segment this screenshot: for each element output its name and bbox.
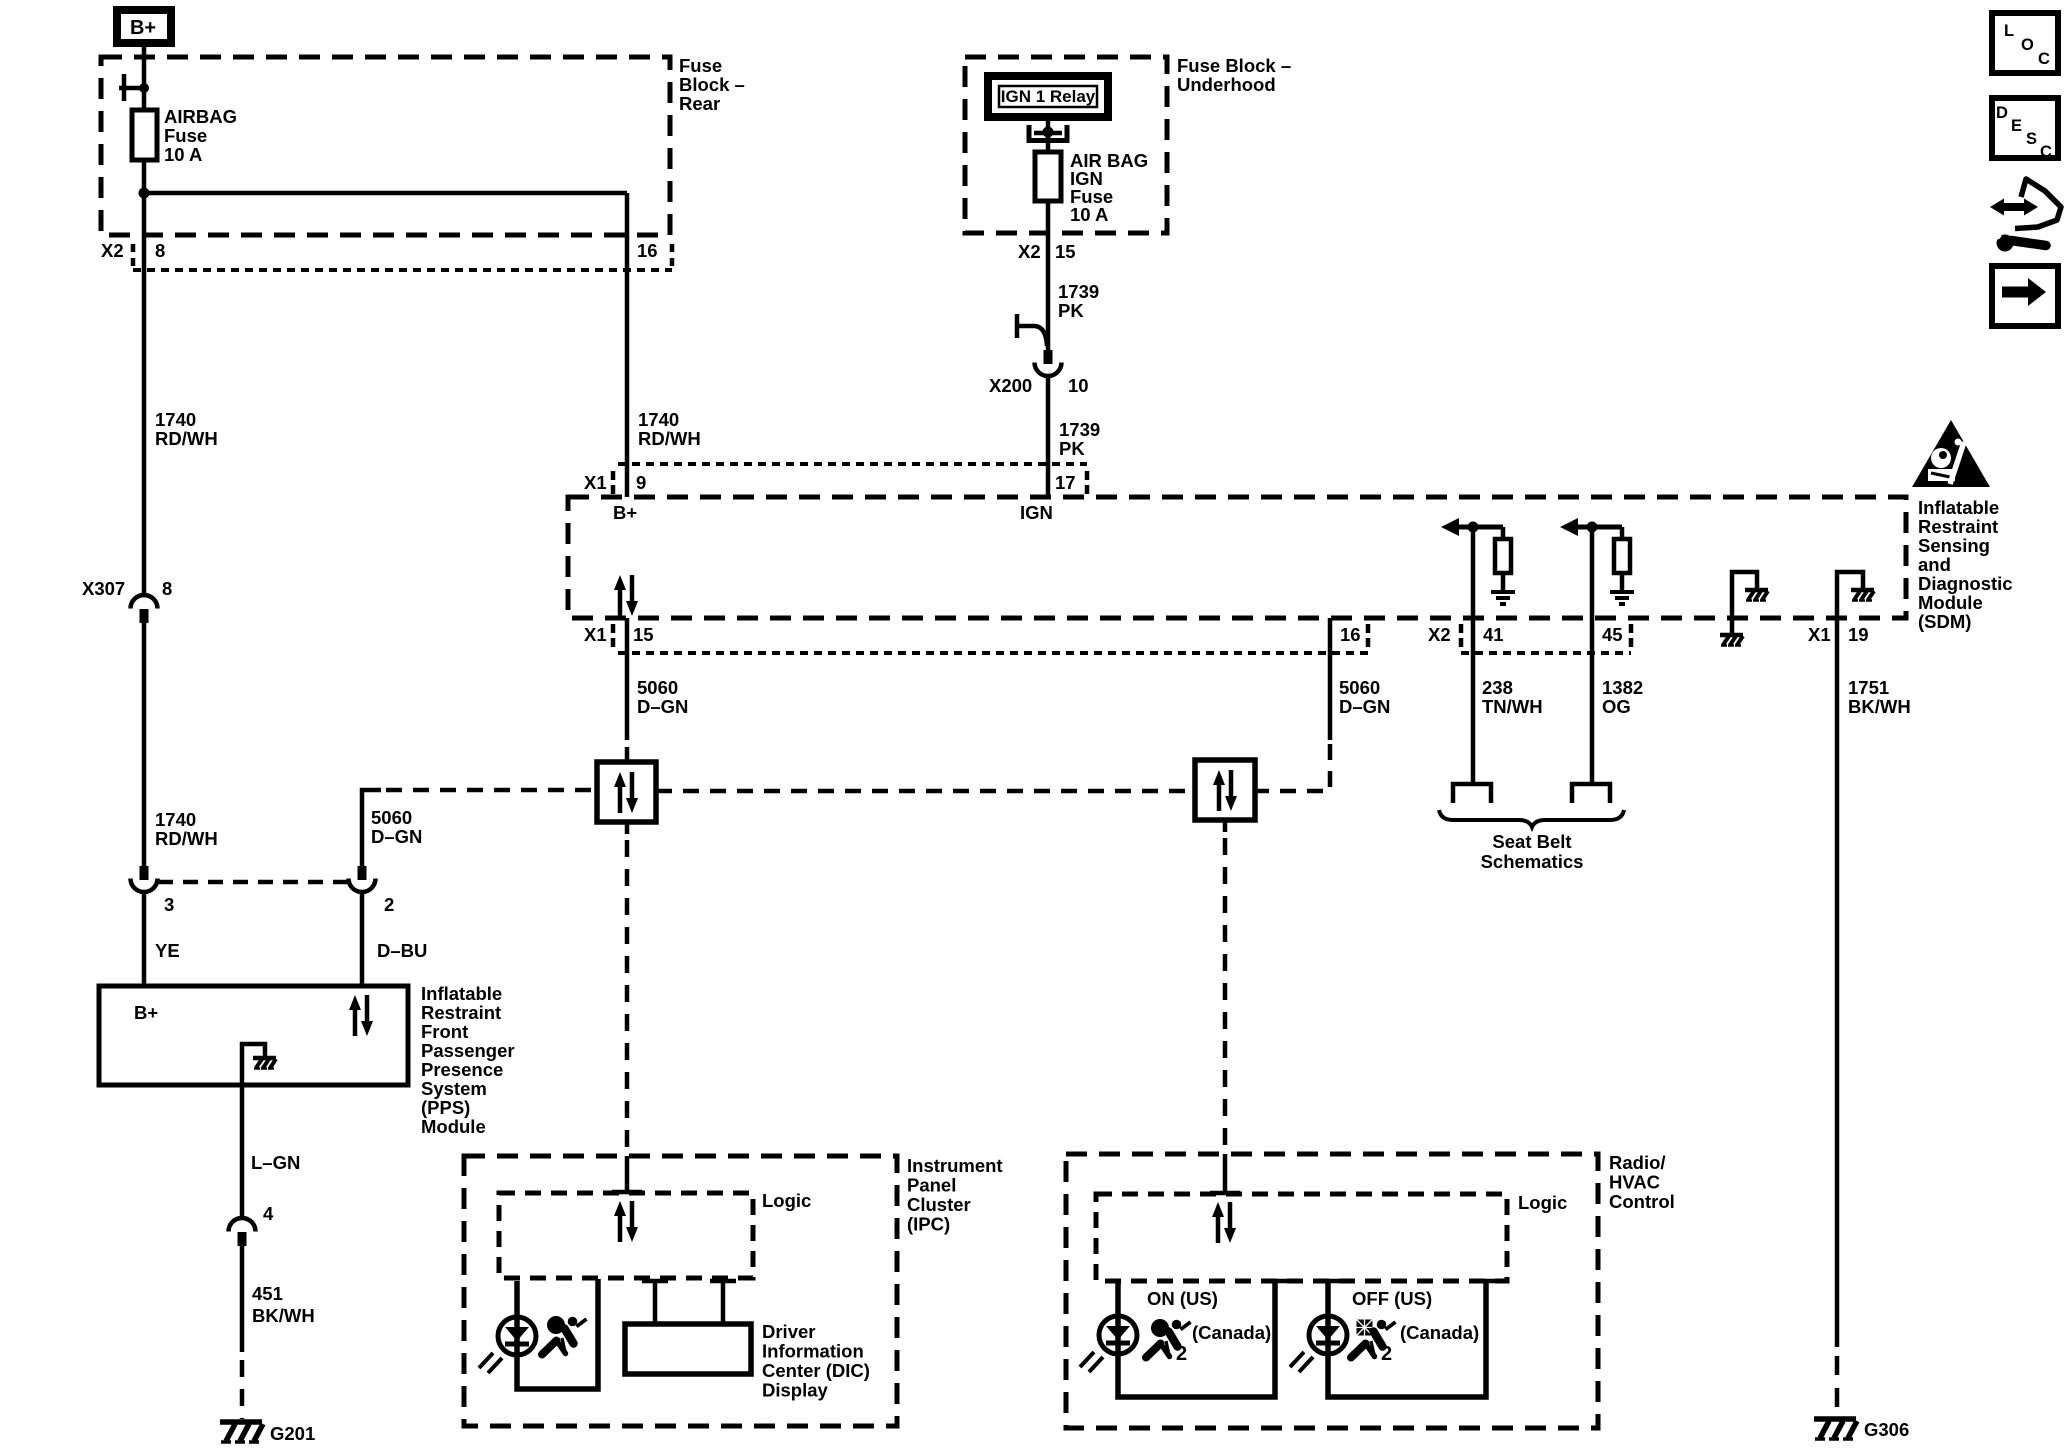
wire pin 45 1382 OG bbox=[1590, 527, 1595, 784]
off-page connector seat belt 2 bbox=[1572, 784, 1610, 803]
arrow to seat belt circuit 1 bbox=[1441, 518, 1503, 536]
svg-text:D: D bbox=[1996, 104, 2008, 122]
svg-text:X1: X1 bbox=[584, 624, 607, 645]
ground G306 bbox=[1814, 1419, 1909, 1440]
svg-text:B+: B+ bbox=[134, 1002, 158, 1023]
OFF box top tick left bbox=[1315, 1279, 1341, 1284]
chassis ground internal floating bbox=[1745, 590, 1768, 601]
wire 5060 dashed run to status box bbox=[386, 788, 597, 793]
svg-text:C: C bbox=[2040, 143, 2052, 161]
wire PPS ground lead L-GN bbox=[240, 1086, 245, 1218]
wire pin 41 238 TN/WH bbox=[1471, 527, 1476, 784]
PPS serial data arrows bbox=[349, 995, 373, 1036]
wire pin 16 5060 D-GN right bbox=[1328, 618, 1333, 740]
svg-text:B+: B+ bbox=[613, 502, 637, 523]
wire 1751 BK/WH bbox=[1835, 618, 1840, 1347]
svg-text:IGN 1 Relay: IGN 1 Relay bbox=[1001, 87, 1096, 106]
power symbol B+ box bbox=[117, 10, 171, 43]
wire relay to fuse bbox=[1046, 120, 1051, 152]
connector X1 separator after pin 16 bbox=[1366, 624, 1371, 647]
wire pin 15 dash to status box bbox=[625, 747, 630, 760]
svg-text:IGN: IGN bbox=[1020, 502, 1053, 523]
connector X1 dotted line bottom bbox=[618, 651, 1368, 655]
SDM internal ground bracket floating bbox=[1732, 572, 1757, 634]
DIC display leg right bbox=[710, 1281, 736, 1324]
svg-text:45: 45 bbox=[1602, 624, 1623, 645]
svg-text:X1: X1 bbox=[1808, 624, 1831, 645]
svg-text:15: 15 bbox=[1055, 241, 1076, 262]
svg-text:O: O bbox=[2021, 36, 2034, 54]
svg-text:X307: X307 bbox=[82, 578, 125, 599]
fuse block rear dashed box bbox=[101, 57, 670, 235]
PPS internal ground wire bbox=[242, 1044, 265, 1086]
wire 1739 PK to SDM bbox=[1046, 378, 1051, 497]
wire fuse to X200 bbox=[1046, 201, 1051, 350]
module IPC dashed box bbox=[464, 1156, 897, 1426]
connector X1 separator right bbox=[1085, 471, 1090, 494]
svg-text:17: 17 bbox=[1055, 472, 1076, 493]
icon LOC box bbox=[1992, 13, 2058, 73]
resistor R1 bbox=[1495, 527, 1511, 591]
svg-text:Logic: Logic bbox=[762, 1190, 811, 1211]
junction pin 41 bbox=[1468, 522, 1479, 533]
svg-text:19: 19 bbox=[1848, 624, 1869, 645]
fuse block underhood dashed box bbox=[965, 57, 1167, 233]
svg-text:E: E bbox=[2011, 117, 2022, 135]
svg-text:X200: X200 bbox=[989, 375, 1032, 396]
wire fuse to X2 pin 8 bbox=[142, 160, 147, 594]
svg-text:41: 41 bbox=[1483, 624, 1504, 645]
svg-text:D–BU: D–BU bbox=[377, 940, 427, 961]
svg-text:10: 10 bbox=[1068, 375, 1089, 396]
module U2 PPS box bbox=[99, 986, 408, 1085]
wire dashed status box to IPC bbox=[625, 840, 630, 1155]
connector X2 dotted line bbox=[1461, 651, 1631, 655]
svg-text:S: S bbox=[2026, 130, 2037, 148]
svg-text:C: C bbox=[2038, 50, 2050, 68]
svg-text:YE: YE bbox=[155, 940, 180, 961]
icon data exchange with wrench bbox=[1990, 179, 2061, 252]
ON indicator LED bbox=[1080, 1316, 1137, 1372]
wire into radio logic bbox=[1223, 1154, 1228, 1193]
relay K1 IGN 1 Relay box bbox=[988, 76, 1108, 117]
radio logic dashed box bbox=[1096, 1194, 1507, 1281]
wire terminal tick radio bbox=[1210, 1191, 1240, 1196]
in-line connector pin 3 bbox=[131, 866, 158, 892]
connector X2 separator right bbox=[670, 244, 675, 266]
svg-text:X2: X2 bbox=[1428, 624, 1451, 645]
radio logic serial arrows bbox=[1212, 1202, 1236, 1243]
svg-text:Fuse Block –Underhood: Fuse Block –Underhood bbox=[1177, 55, 1291, 95]
module SDM dashed box bbox=[568, 497, 1906, 618]
fuse F2 AIR BAG IGN 10A bbox=[1035, 152, 1061, 201]
wire stub under status box right bbox=[1223, 820, 1228, 832]
relay terminal junction bbox=[1043, 127, 1054, 138]
X200 lead hook bbox=[1017, 314, 1047, 346]
svg-text:X2: X2 bbox=[1018, 241, 1041, 262]
warning triangle icon bbox=[1912, 420, 1990, 487]
relay terminal bracket bbox=[1029, 125, 1067, 141]
svg-text:2: 2 bbox=[1381, 1343, 1392, 1365]
chassis ground below SDM edge bbox=[1720, 635, 1743, 646]
connector X1 separator left bbox=[611, 471, 616, 494]
junction at fuse output bbox=[139, 188, 150, 199]
OFF airbag icon bbox=[1351, 1320, 1396, 1358]
connector X1 dotted line top bbox=[618, 462, 1087, 466]
svg-text:G201: G201 bbox=[270, 1423, 315, 1444]
module Radio/HVAC dashed box bbox=[1066, 1154, 1598, 1428]
svg-text:4: 4 bbox=[263, 1203, 274, 1224]
wire terminal tick IPC bbox=[612, 1190, 642, 1195]
IPC logic serial arrows bbox=[614, 1201, 638, 1242]
in-line connector pin 2 bbox=[349, 866, 376, 892]
svg-text:8: 8 bbox=[155, 240, 165, 261]
wire dashed between status boxes bbox=[656, 789, 1195, 794]
wire dashed to G201 bbox=[240, 1360, 245, 1419]
fuse F1 AIRBAG 10A bbox=[132, 110, 157, 160]
chassis ground internal pin 19 bbox=[1851, 590, 1874, 601]
svg-text:2: 2 bbox=[384, 894, 394, 915]
IPC indicator LED bbox=[479, 1317, 536, 1373]
svg-text:Logic: Logic bbox=[1518, 1192, 1567, 1213]
wire dashed pin16 to status box right bbox=[1257, 744, 1330, 791]
relay terminal bar bbox=[1034, 131, 1062, 136]
wire into IPC logic bbox=[625, 1156, 630, 1192]
svg-text:X2: X2 bbox=[101, 240, 124, 261]
icon DESC box bbox=[1992, 98, 2058, 161]
status connector box left bbox=[597, 762, 656, 822]
junction pin 45 bbox=[1587, 522, 1598, 533]
svg-text:ON (US): ON (US) bbox=[1147, 1288, 1218, 1309]
fuse block internal lead hook bbox=[119, 74, 146, 101]
svg-text:2: 2 bbox=[1176, 1343, 1187, 1365]
svg-text:OFF (US): OFF (US) bbox=[1352, 1288, 1432, 1309]
PPS internal chassis ground bbox=[253, 1058, 276, 1069]
wire stub under status box left bbox=[625, 822, 630, 834]
connector X1 separator bottom left bbox=[611, 624, 616, 647]
svg-text:G306: G306 bbox=[1864, 1419, 1909, 1440]
connector pin 4 bbox=[229, 1203, 275, 1246]
connector X2 separator left bbox=[131, 244, 136, 266]
svg-text:(Canada): (Canada) bbox=[1192, 1322, 1271, 1343]
wire connector 2 to PPS bbox=[360, 893, 365, 988]
icon forward arrow box bbox=[1992, 266, 2058, 326]
svg-text:Seat BeltSchematics: Seat BeltSchematics bbox=[1481, 831, 1584, 872]
svg-text:16: 16 bbox=[1340, 624, 1361, 645]
resistor R2 bbox=[1614, 527, 1630, 591]
svg-text:3: 3 bbox=[164, 894, 174, 915]
SDM serial data arrows bbox=[614, 575, 638, 616]
earth ground R1 bbox=[1491, 592, 1515, 604]
IPC airbag indicator icon bbox=[542, 1316, 587, 1355]
DIC display box bbox=[625, 1324, 751, 1374]
wire X307 to connector 3 bbox=[142, 623, 147, 867]
connector X2 separator right of 45 bbox=[1629, 624, 1634, 647]
ground G201 bbox=[220, 1422, 315, 1444]
OFF box top tick right bbox=[1473, 1279, 1499, 1284]
DIC display leg left bbox=[642, 1281, 668, 1324]
connector X2 separator left of 41 bbox=[1459, 624, 1464, 647]
ON airbag icon bbox=[1146, 1319, 1191, 1358]
IPC logic dashed box bbox=[499, 1193, 753, 1278]
ON box top tick bbox=[1262, 1279, 1288, 1284]
wire horizontal bus to pin 16 bbox=[144, 191, 627, 196]
IPC airbag indicator box bbox=[517, 1279, 598, 1389]
SDM ground bracket pin 19 bbox=[1837, 572, 1863, 618]
svg-text:8: 8 bbox=[162, 578, 172, 599]
wire 5060 corner to connector 2 bbox=[362, 790, 381, 866]
OFF indicator box bbox=[1328, 1281, 1486, 1397]
wire pin 15 5060 D-GN bbox=[625, 618, 630, 740]
svg-text:L: L bbox=[2004, 22, 2014, 40]
ON indicator box bbox=[1118, 1281, 1275, 1397]
brace seat belt schematics bbox=[1439, 810, 1624, 827]
wire B+ to fuse bbox=[142, 43, 147, 112]
svg-text:16: 16 bbox=[637, 240, 658, 261]
svg-text:(Canada): (Canada) bbox=[1400, 1322, 1479, 1343]
dashed harness line between connectors 3 and 2 bbox=[158, 880, 348, 885]
status connector box right bbox=[1195, 760, 1255, 820]
svg-text:X1: X1 bbox=[584, 472, 607, 493]
svg-text:L–GN: L–GN bbox=[251, 1152, 300, 1173]
arrow to seat belt circuit 2 bbox=[1560, 518, 1622, 536]
svg-text:B+: B+ bbox=[130, 17, 156, 39]
svg-text:9: 9 bbox=[636, 472, 646, 493]
off-page connector seat belt 1 bbox=[1453, 784, 1491, 803]
wire 451 BK/WH bbox=[240, 1246, 245, 1352]
connector X307 bbox=[82, 578, 172, 623]
connector X200 pin 10 bbox=[989, 350, 1089, 396]
wire pin 16 drop bbox=[625, 193, 630, 497]
wire dashed status box to Radio bbox=[1223, 838, 1228, 1153]
wire connector 3 to PPS bbox=[142, 893, 147, 988]
earth ground R2 bbox=[1610, 592, 1634, 604]
OFF indicator LED bbox=[1290, 1316, 1347, 1372]
wire dashed to G306 bbox=[1835, 1356, 1840, 1416]
connector X2 dotted line bbox=[133, 268, 672, 272]
svg-text:15: 15 bbox=[633, 624, 654, 645]
